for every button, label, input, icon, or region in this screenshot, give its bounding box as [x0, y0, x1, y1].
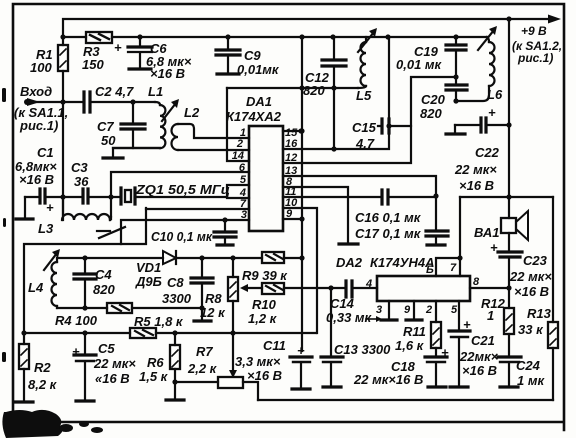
- resistor R12: [481, 296, 514, 356]
- svg-text:5: 5: [240, 174, 247, 186]
- svg-text:+: +: [114, 40, 122, 55]
- capacitor C3: [71, 160, 121, 203]
- inductor L6: [456, 26, 503, 102]
- svg-text:8: 8: [473, 276, 480, 288]
- diode VD1: [135, 251, 262, 289]
- capacitor C16: [355, 190, 422, 225]
- svg-text:R11: R11: [403, 324, 426, 339]
- svg-text:2: 2: [236, 138, 243, 150]
- capacitor C18: [353, 345, 449, 387]
- svg-text:DA2: DA2: [336, 255, 363, 270]
- pin 8 wire: [283, 176, 358, 244]
- svg-text:+: +: [46, 200, 54, 215]
- capacitor C22: [446, 105, 509, 193]
- wire input line: [27, 99, 155, 104]
- input node Вход: [14, 84, 68, 133]
- trimmer core slash (L3): [97, 227, 125, 238]
- wire +9V drop x509: [506, 19, 511, 218]
- svg-text:22 мк×: 22 мк×: [454, 162, 497, 177]
- resistor R1: [30, 37, 68, 215]
- capacitor C24: [498, 357, 545, 388]
- svg-text:C7: C7: [97, 119, 114, 134]
- svg-text:R4 100: R4 100: [55, 313, 98, 328]
- inductor L4: [28, 249, 163, 308]
- svg-text:×16 В: ×16 В: [247, 368, 282, 383]
- pin 8 wire: [470, 276, 512, 291]
- wire ground bus bottom: [258, 399, 553, 401]
- svg-text:C23: C23: [523, 253, 548, 268]
- capacitor C6: [114, 37, 192, 81]
- svg-text:3: 3: [241, 209, 247, 221]
- svg-text:5: 5: [451, 304, 458, 316]
- svg-text:150: 150: [82, 57, 104, 72]
- svg-text:4: 4: [365, 278, 372, 290]
- inductor L2: [172, 105, 200, 150]
- pin 15 wire: [283, 127, 304, 139]
- scan marks left edge: [2, 88, 6, 362]
- svg-text:Вход: Вход: [20, 84, 52, 99]
- capacitor C10: [151, 217, 236, 245]
- resistor R3: [82, 32, 112, 72]
- svg-text:12 к: 12 к: [200, 305, 226, 320]
- pin 9 wire: [283, 208, 302, 220]
- svg-text:С3: С3: [71, 160, 88, 175]
- svg-text:R2: R2: [34, 360, 51, 375]
- capacitor C17: [355, 196, 448, 245]
- wire C1 line left end: [16, 197, 40, 219]
- svg-text:3,3 мк×: 3,3 мк×: [235, 354, 281, 369]
- svg-text:C5: C5: [98, 341, 115, 356]
- svg-text:L2: L2: [184, 105, 200, 120]
- svg-text:К174УН4А: К174УН4А: [370, 255, 435, 270]
- svg-text:DA1: DA1: [246, 94, 272, 109]
- pins 5,4 wires (crystal): [227, 174, 249, 199]
- svg-text:R8: R8: [205, 291, 222, 306]
- svg-text:R6: R6: [147, 355, 164, 370]
- svg-text:рис.1): рис.1): [517, 51, 553, 65]
- arrow variable coupling L1/L2: [162, 99, 179, 121]
- ground (near C7): [103, 148, 160, 158]
- blob scan artifact: [2, 410, 103, 438]
- svg-text:R9 39 к: R9 39 к: [242, 268, 288, 283]
- svg-text:L4: L4: [28, 280, 44, 295]
- resistor R11 (pin 2): [395, 301, 441, 356]
- svg-text:1,6 к: 1,6 к: [395, 338, 425, 353]
- pin 10 wire: [283, 197, 317, 333]
- capacitor C8: [162, 255, 213, 321]
- capacitor C21 (pin 5): [449, 301, 499, 387]
- svg-text:С17 0,1 мк: С17 0,1 мк: [355, 226, 422, 241]
- wire output box top: [460, 196, 553, 198]
- pin 12 wire: [283, 74, 459, 164]
- capacitor C23: [490, 233, 552, 308]
- svg-text:+9 В: +9 В: [521, 24, 547, 38]
- svg-text:50: 50: [101, 133, 116, 148]
- svg-text:820: 820: [420, 106, 442, 121]
- svg-text:C22: C22: [475, 145, 500, 160]
- svg-text:L6: L6: [487, 87, 503, 102]
- pin 14 wire: [227, 88, 249, 162]
- svg-text:8,2 к: 8,2 к: [28, 377, 58, 392]
- pin 7 wire: [146, 198, 249, 210]
- capacitor C5: [72, 333, 136, 401]
- svg-text:C8: C8: [167, 275, 184, 290]
- inductor L3: [38, 197, 111, 236]
- IC DA1: [226, 94, 283, 231]
- capacitor C9: [216, 37, 280, 77]
- svg-text:6: 6: [239, 162, 246, 174]
- svg-text:100: 100: [30, 60, 52, 75]
- svg-text:3300: 3300: [162, 291, 192, 306]
- svg-text:×16 В: ×16 В: [150, 66, 185, 81]
- svg-text:ZQ1 50,5 МГц: ZQ1 50,5 МГц: [135, 182, 230, 197]
- svg-text:R7: R7: [196, 344, 213, 359]
- svg-text:3: 3: [376, 304, 382, 316]
- capacitor C11: [235, 338, 312, 389]
- crystal ZQ1: [121, 182, 230, 204]
- svg-text:×16 В: ×16 В: [459, 178, 494, 193]
- resistor R4: [55, 303, 202, 328]
- svg-text:9: 9: [404, 304, 411, 316]
- svg-text:Д9Б: Д9Б: [135, 274, 162, 289]
- pin 9 stub: [404, 301, 422, 320]
- svg-text:22 мк×16 В: 22 мк×16 В: [353, 372, 423, 387]
- resistor R13: [518, 306, 558, 348]
- svg-text:12: 12: [285, 152, 297, 164]
- svg-text:R13: R13: [527, 306, 552, 321]
- svg-text:14: 14: [232, 150, 244, 162]
- capacitor C2: [84, 84, 134, 112]
- svg-text:36: 36: [74, 174, 89, 189]
- svg-text:C15: C15: [352, 120, 377, 135]
- svg-text:C2 4,7: C2 4,7: [95, 84, 134, 99]
- svg-text:×16 В: ×16 В: [19, 172, 54, 187]
- svg-text:+: +: [488, 105, 496, 120]
- capacitor C1: [15, 145, 83, 215]
- svg-text:0,01 мк: 0,01 мк: [396, 57, 443, 72]
- pin 2 wire (from L2 bottom): [178, 138, 249, 150]
- svg-text:C10 0,1 мк: C10 0,1 мк: [151, 229, 213, 244]
- inductor L1: [113, 84, 165, 148]
- svg-text:9: 9: [286, 208, 293, 220]
- svg-text:C14: C14: [330, 296, 355, 311]
- capacitor C7: [97, 99, 145, 148]
- svg-text:×16 В: ×16 В: [462, 363, 497, 378]
- svg-text:ВА1: ВА1: [474, 225, 500, 240]
- inductor L5: [356, 28, 377, 103]
- +9V label: [512, 24, 562, 65]
- svg-text:C4: C4: [95, 267, 112, 282]
- svg-text:22 мк×: 22 мк×: [509, 269, 552, 284]
- wire DA2 top pins: [426, 197, 463, 276]
- svg-text:1,2 к: 1,2 к: [248, 311, 278, 326]
- svg-text:C1: C1: [37, 145, 54, 160]
- svg-text:33 к: 33 к: [518, 322, 544, 337]
- svg-text:1,5 к: 1,5 к: [139, 369, 169, 384]
- IC DA2: [336, 255, 470, 301]
- svg-text:C24: C24: [516, 358, 541, 373]
- svg-text:рис.1): рис.1): [19, 118, 58, 133]
- pin 4 wire + capacitor C14: [326, 278, 382, 325]
- resistor R8: [200, 255, 238, 378]
- svg-text:L5: L5: [356, 88, 372, 103]
- svg-text:C21: C21: [471, 333, 495, 348]
- wire vertical net x302: [299, 37, 304, 351]
- svg-text:С20: С20: [421, 92, 446, 107]
- svg-text:2,2 к: 2,2 к: [187, 361, 218, 376]
- svg-text:1 мк: 1 мк: [517, 373, 545, 388]
- capacitor C13: [321, 288, 391, 387]
- wire output box right: [552, 197, 554, 400]
- svg-text:«16 В: «16 В: [95, 371, 130, 386]
- svg-text:2: 2: [425, 304, 432, 316]
- svg-text:4,7: 4,7: [355, 136, 375, 151]
- pin 3 wire: [121, 209, 249, 244]
- svg-text:К174ХА2: К174ХА2: [226, 109, 282, 124]
- pin 6 wire: [111, 162, 249, 219]
- svg-text:820: 820: [303, 83, 325, 98]
- pin 3 stub: [376, 301, 397, 320]
- svg-text:1: 1: [487, 308, 494, 323]
- capacitor C15: [352, 119, 411, 151]
- wire bus y333: [21, 330, 316, 335]
- svg-text:С16 0,1 мк: С16 0,1 мк: [355, 210, 422, 225]
- svg-text:22 мк×: 22 мк×: [93, 356, 136, 371]
- capacitor C20: [420, 85, 467, 121]
- wire L5 bottom: [227, 87, 358, 89]
- speaker BA1: [474, 211, 528, 240]
- svg-text:22мк×: 22мк×: [459, 349, 499, 364]
- svg-text:×16 В: ×16 В: [514, 284, 549, 299]
- wire second rail: [60, 34, 487, 39]
- svg-text:R10: R10: [252, 297, 277, 312]
- resistor R5: [130, 314, 184, 338]
- svg-text:R5 1,8 к: R5 1,8 к: [134, 314, 184, 329]
- resistor R7: [175, 344, 258, 400]
- pin 16 wire: [283, 37, 392, 152]
- svg-text:820: 820: [93, 282, 115, 297]
- svg-text:0,01мк: 0,01мк: [237, 62, 280, 77]
- capacitor C19: [396, 37, 466, 85]
- svg-text:16: 16: [285, 138, 298, 150]
- svg-text:С11: С11: [263, 338, 286, 353]
- svg-text:7: 7: [450, 262, 457, 274]
- svg-text:L1: L1: [148, 84, 163, 99]
- +9V rail (top): [63, 15, 561, 38]
- svg-text:L3: L3: [38, 221, 54, 236]
- svg-text:C9: C9: [244, 48, 261, 63]
- pin 13 wire: [283, 165, 439, 199]
- resistor R6: [139, 333, 184, 400]
- pin 11 wire: [283, 186, 436, 198]
- resistor R9: [242, 252, 302, 283]
- wire pin7 return to left bus: [24, 208, 146, 333]
- capacitor C12: [303, 37, 346, 149]
- svg-text:0,33 мк: 0,33 мк: [326, 310, 373, 325]
- capacitor C4: [74, 255, 115, 310]
- svg-text:C13 3300: C13 3300: [334, 342, 391, 357]
- resistor R2: [15, 333, 58, 402]
- svg-text:VD1: VD1: [136, 260, 161, 275]
- pin 1 wire (from L2 top): [178, 124, 249, 139]
- svg-text:+: +: [72, 344, 80, 359]
- resistor R10: [240, 283, 346, 326]
